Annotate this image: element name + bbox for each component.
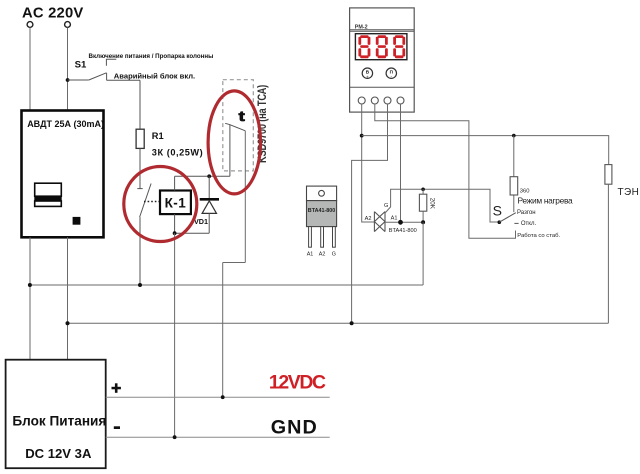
node bus2 left — [66, 321, 70, 325]
svg-text:Блок Питания: Блок Питания — [12, 414, 106, 429]
red ellipse around K-1 — [124, 167, 197, 242]
TO-247 package BTA41-800 — [307, 186, 337, 257]
diode VD1 — [175, 176, 219, 233]
PM-2 module body — [350, 8, 415, 112]
wire S1 to R1 — [139, 80, 141, 129]
svg-text:Режим нагрева: Режим нагрева — [518, 195, 574, 205]
svg-text:АВДТ 25А (30mA): АВДТ 25А (30mA) — [27, 119, 104, 129]
resistor R1 body — [136, 129, 144, 148]
heater ТЭН body — [605, 165, 612, 185]
breaker АВДТ 25А box — [22, 111, 104, 238]
label minus — [114, 426, 120, 429]
svg-text:t: t — [239, 109, 246, 125]
terminal 3 — [384, 97, 391, 104]
gate wire up and right — [385, 189, 499, 222]
svg-text:+: + — [366, 74, 369, 79]
thermal switch contact — [225, 123, 245, 176]
wire 12VDC — [106, 396, 330, 398]
wire T3 to lower bus — [352, 104, 388, 323]
resistor 20K body — [419, 194, 426, 211]
svg-text:РМ-2: РМ-2 — [355, 25, 368, 31]
svg-text:20K: 20K — [429, 198, 436, 210]
neutral bus lower — [68, 322, 609, 324]
PM-2 display window — [355, 34, 407, 60]
svg-text:360: 360 — [520, 189, 530, 195]
svg-text:R1: R1 — [152, 131, 164, 141]
resistor 360 body — [510, 177, 518, 195]
node relay coil on GND — [173, 435, 177, 439]
node 20K bottom — [421, 220, 425, 224]
svg-text:К-1: К-1 — [165, 196, 187, 211]
breaker test button square — [73, 217, 81, 225]
wire breaker left output down to power box — [29, 237, 31, 359]
switch S1 — [68, 59, 140, 80]
svg-text:3К (0,25W): 3К (0,25W) — [152, 147, 203, 157]
Откл middle position dash — [514, 222, 518, 224]
wire T1 branch to 360 and ТЭН — [362, 136, 609, 165]
svg-text:A2: A2 — [365, 216, 372, 222]
node coil bottom — [173, 231, 177, 235]
wire node to 360 resistor — [513, 136, 515, 177]
svg-text:S: S — [493, 202, 502, 218]
svg-text:12VDC: 12VDC — [269, 371, 326, 393]
svg-text:GND: GND — [271, 416, 318, 438]
relay contact blade K1 — [140, 184, 152, 218]
triac BTA41-800 symbol — [374, 212, 385, 232]
PM-2 terminal strip — [350, 86, 415, 88]
breaker rocker lever drawing — [34, 183, 61, 206]
svg-text:Разгон: Разгон — [517, 210, 536, 216]
wire T4 down to A1 node — [400, 104, 402, 222]
wire breaker right output down to power box — [67, 237, 69, 359]
svg-text:G: G — [332, 252, 336, 258]
terminal N circle — [65, 22, 71, 28]
terminal 1 — [358, 97, 365, 104]
wire contact down to phase bus — [139, 217, 141, 285]
svg-text:ТЭН: ТЭН — [618, 187, 640, 198]
svg-text:VD1: VD1 — [194, 217, 208, 226]
node KSD on 12VDC — [221, 395, 225, 399]
svg-text:G: G — [384, 203, 388, 209]
node coil top / VD1 / KSD — [207, 174, 211, 178]
mechanical link dotted — [144, 201, 160, 203]
node T4/A1 — [398, 220, 403, 225]
svg-text:A2: A2 — [319, 252, 326, 258]
node 20K top on gate wire — [421, 188, 425, 192]
thermal switch KSD9700 dashed box — [223, 80, 254, 171]
button В — [362, 68, 372, 79]
phase bus upper — [30, 284, 423, 286]
wire A1 to 20K bottom — [385, 221, 423, 223]
wire 360 bottom to Разгон contact — [513, 195, 515, 212]
svg-text:A1: A1 — [307, 252, 314, 258]
svg-text:Включение питания / Пропарка к: Включение питания / Пропарка колонны — [89, 53, 214, 60]
wire R1 to relay contact — [137, 148, 142, 188]
S blade — [499, 213, 516, 223]
node S common — [498, 220, 502, 224]
button П — [386, 68, 396, 79]
node bus left — [28, 283, 32, 287]
svg-text:S1: S1 — [75, 60, 87, 71]
svg-text:Откл.: Откл. — [521, 221, 537, 227]
terminal 4 — [397, 97, 404, 104]
svg-text:A1: A1 — [391, 216, 398, 222]
node 360 top — [512, 134, 516, 138]
wire coil bottom down to GND line — [174, 233, 176, 437]
power supply box — [6, 360, 106, 469]
seven segment 888 — [358, 35, 405, 58]
node relay contact on bus — [138, 283, 142, 287]
wire K-1 coil top to node — [175, 176, 230, 190]
terminal L circle — [27, 22, 33, 28]
svg-text:DC 12V 3А: DC 12V 3А — [25, 446, 92, 461]
wire GND — [106, 436, 330, 438]
svg-text:BTA41-800: BTA41-800 — [308, 208, 335, 214]
wire 20K stubs — [422, 189, 424, 222]
PM-2 top section separator — [350, 30, 415, 32]
svg-text:BTA41-800: BTA41-800 — [389, 228, 417, 234]
relay coil K-1 box — [160, 191, 191, 215]
svg-text:Аварийный блок вкл.: Аварийный блок вкл. — [114, 71, 195, 80]
wire ТЭН bottom to lower bus — [607, 184, 609, 323]
terminal 2 — [371, 97, 378, 104]
wire T1 down to triac A2 — [362, 104, 375, 222]
wire 20K bottom down joining phase bus — [422, 222, 424, 285]
wire T2 to Работа со стаб contact — [375, 104, 516, 238]
wire N down to breaker — [67, 28, 69, 111]
wire K-1 coil bottom — [174, 214, 176, 233]
node T1 branch — [360, 134, 364, 138]
label plus — [112, 383, 121, 393]
node S1 common junction — [66, 78, 70, 82]
red ellipse around KSD9700 — [208, 91, 260, 194]
svg-text:Работа со стаб.: Работа со стаб. — [517, 233, 560, 239]
wire L down to breaker — [29, 28, 31, 111]
svg-text:AC 220V: AC 220V — [22, 6, 83, 22]
node T3 on bus2 — [350, 321, 354, 325]
wire KSD right terminal down to 12VDC — [223, 131, 246, 397]
